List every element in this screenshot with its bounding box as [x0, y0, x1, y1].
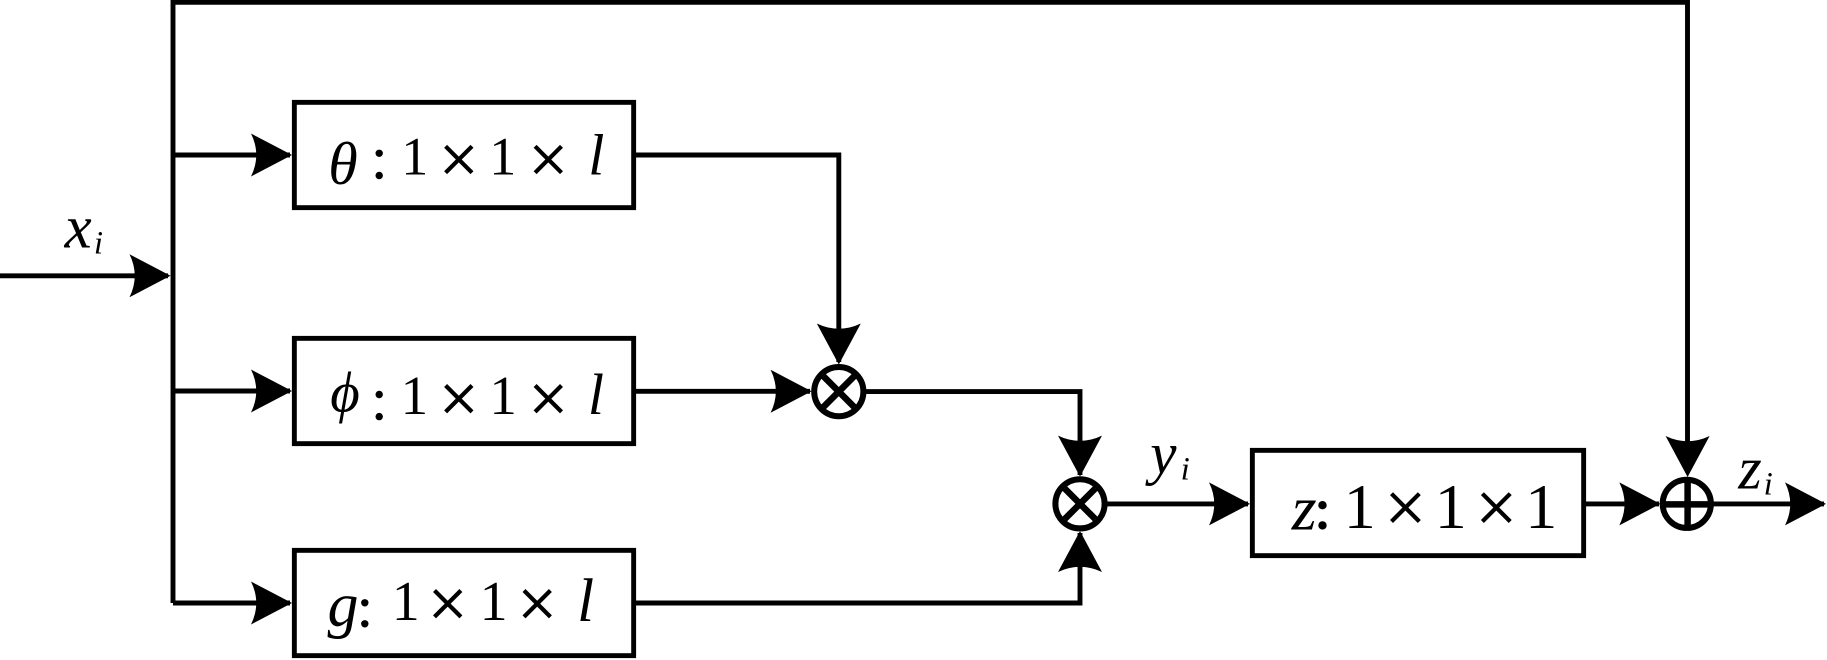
arrowhead input x_i — [130, 254, 171, 297]
svg-text:1: 1 — [489, 126, 516, 186]
label theta box text — [328, 122, 604, 197]
svg-text:1: 1 — [1435, 471, 1467, 542]
svg-text:l: l — [577, 568, 594, 635]
label phi box text — [330, 361, 604, 427]
wire phi output to multiplier — [636, 389, 810, 394]
wire input x_i — [0, 273, 168, 278]
box theta 1x1xl — [294, 102, 633, 207]
svg-text:1: 1 — [401, 126, 428, 186]
label g box text — [328, 568, 595, 640]
multiplier circle 2 — [1055, 479, 1104, 528]
wire theta output down to multiplier — [636, 155, 839, 362]
wire adder output z_i — [1714, 501, 1825, 506]
multiplier2 X — [1065, 489, 1096, 520]
label y_i — [1145, 420, 1190, 487]
arrowhead down into multiplier1 — [817, 324, 861, 365]
svg-text:1: 1 — [1525, 471, 1557, 542]
label z box text — [1291, 471, 1557, 544]
svg-text:z: z — [1737, 436, 1761, 502]
wire branch to theta box — [173, 153, 290, 158]
svg-text:l: l — [588, 122, 604, 187]
arrowhead into phi box — [251, 370, 292, 413]
arrowhead z into adder — [1619, 482, 1660, 525]
svg-text:x: x — [64, 195, 92, 262]
wire g output up to multiplier2 — [636, 533, 1080, 603]
svg-text:1: 1 — [480, 571, 508, 633]
box g 1x1xl — [294, 550, 633, 655]
svg-text:1: 1 — [1344, 471, 1376, 542]
svg-text:i: i — [1764, 467, 1773, 503]
wire multiplier2 output to z box — [1107, 501, 1248, 506]
wire multiplier1 output to multiplier2 — [866, 392, 1080, 475]
svg-text:1: 1 — [392, 571, 420, 633]
svg-text:ϕ: ϕ — [330, 361, 360, 424]
box z 1x1x1 — [1252, 450, 1583, 555]
multiplier circle 1 — [814, 367, 863, 416]
wire z output to adder — [1586, 501, 1659, 506]
svg-text:i: i — [1181, 452, 1190, 488]
svg-text:1: 1 — [489, 365, 517, 426]
arrowhead down into multiplier2 — [1058, 436, 1102, 477]
wire branch to phi box — [173, 389, 290, 394]
svg-text:θ: θ — [328, 131, 357, 197]
adder circle — [1663, 480, 1711, 528]
svg-text:1: 1 — [401, 365, 429, 426]
wire outer skip loop: trunk, top, right drop — [173, 2, 1688, 603]
arrowhead into theta box — [251, 134, 292, 177]
box phi 1x1xl — [294, 338, 633, 443]
label z_i — [1737, 436, 1772, 503]
arrowhead into g box — [251, 582, 292, 625]
arrowhead phi into multiplier1 — [771, 370, 812, 413]
multiplier1 X — [824, 376, 855, 407]
arrowhead up into multiplier2 — [1058, 531, 1102, 572]
svg-text:y: y — [1145, 420, 1177, 486]
arrowhead output z_i — [1785, 482, 1826, 525]
arrowhead into z box — [1209, 482, 1250, 525]
svg-text:l: l — [588, 362, 604, 427]
adder plus — [1660, 477, 1713, 531]
arrowhead down into adder — [1666, 436, 1710, 477]
svg-text:z: z — [1291, 472, 1317, 543]
wire branch to g box — [173, 601, 290, 606]
svg-text:g: g — [328, 572, 359, 640]
label x_i — [64, 195, 103, 262]
svg-text:i: i — [94, 226, 103, 262]
